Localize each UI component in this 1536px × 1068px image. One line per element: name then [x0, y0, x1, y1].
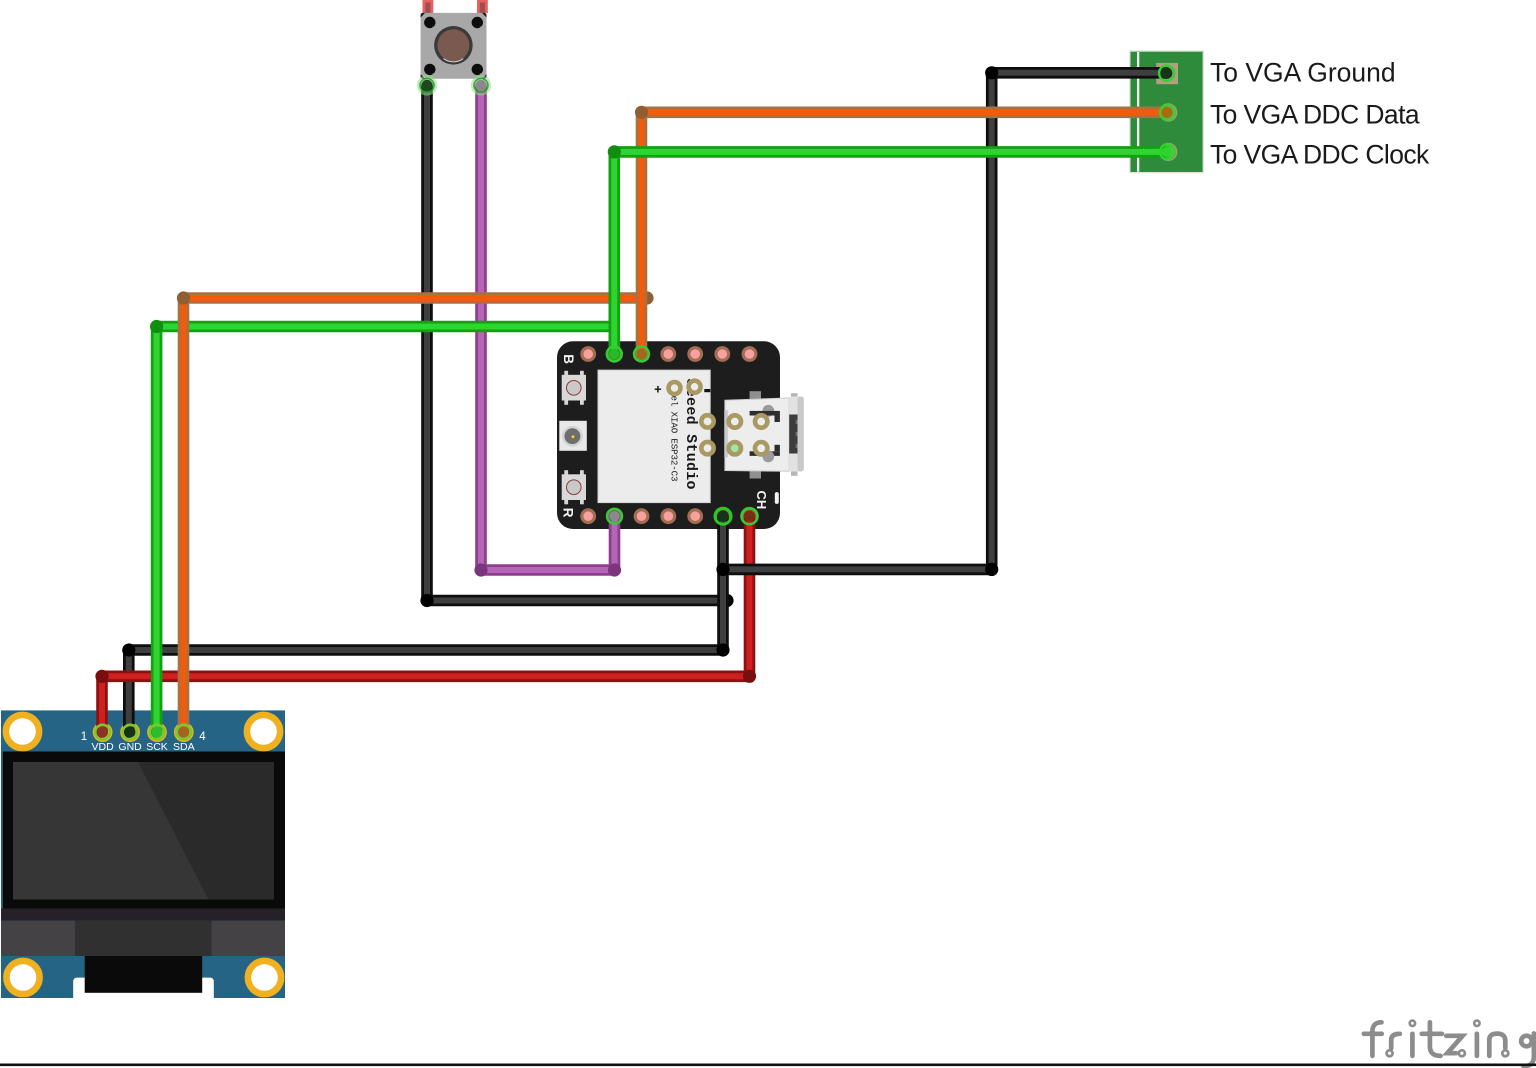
svg-text:B: B — [561, 354, 576, 364]
svg-text:R: R — [561, 508, 576, 518]
svg-text:CH: CH — [754, 491, 769, 510]
svg-text:To VGA Ground: To VGA Ground — [1210, 58, 1396, 88]
svg-text:GND: GND — [118, 741, 142, 753]
svg-text:To VGA DDC Clock: To VGA DDC Clock — [1210, 140, 1430, 170]
svg-text:4: 4 — [199, 731, 206, 743]
svg-text:SDA: SDA — [173, 741, 195, 753]
svg-text:To VGA DDC Data: To VGA DDC Data — [1210, 100, 1420, 130]
svg-text:el XIAO ESP32-C3: el XIAO ESP32-C3 — [669, 396, 680, 482]
svg-text:+: + — [654, 382, 662, 397]
svg-text:SCK: SCK — [146, 741, 168, 753]
svg-text:VDD: VDD — [92, 741, 115, 753]
svg-text:Seeed Studio: Seeed Studio — [682, 379, 699, 490]
svg-text:1: 1 — [81, 731, 87, 743]
